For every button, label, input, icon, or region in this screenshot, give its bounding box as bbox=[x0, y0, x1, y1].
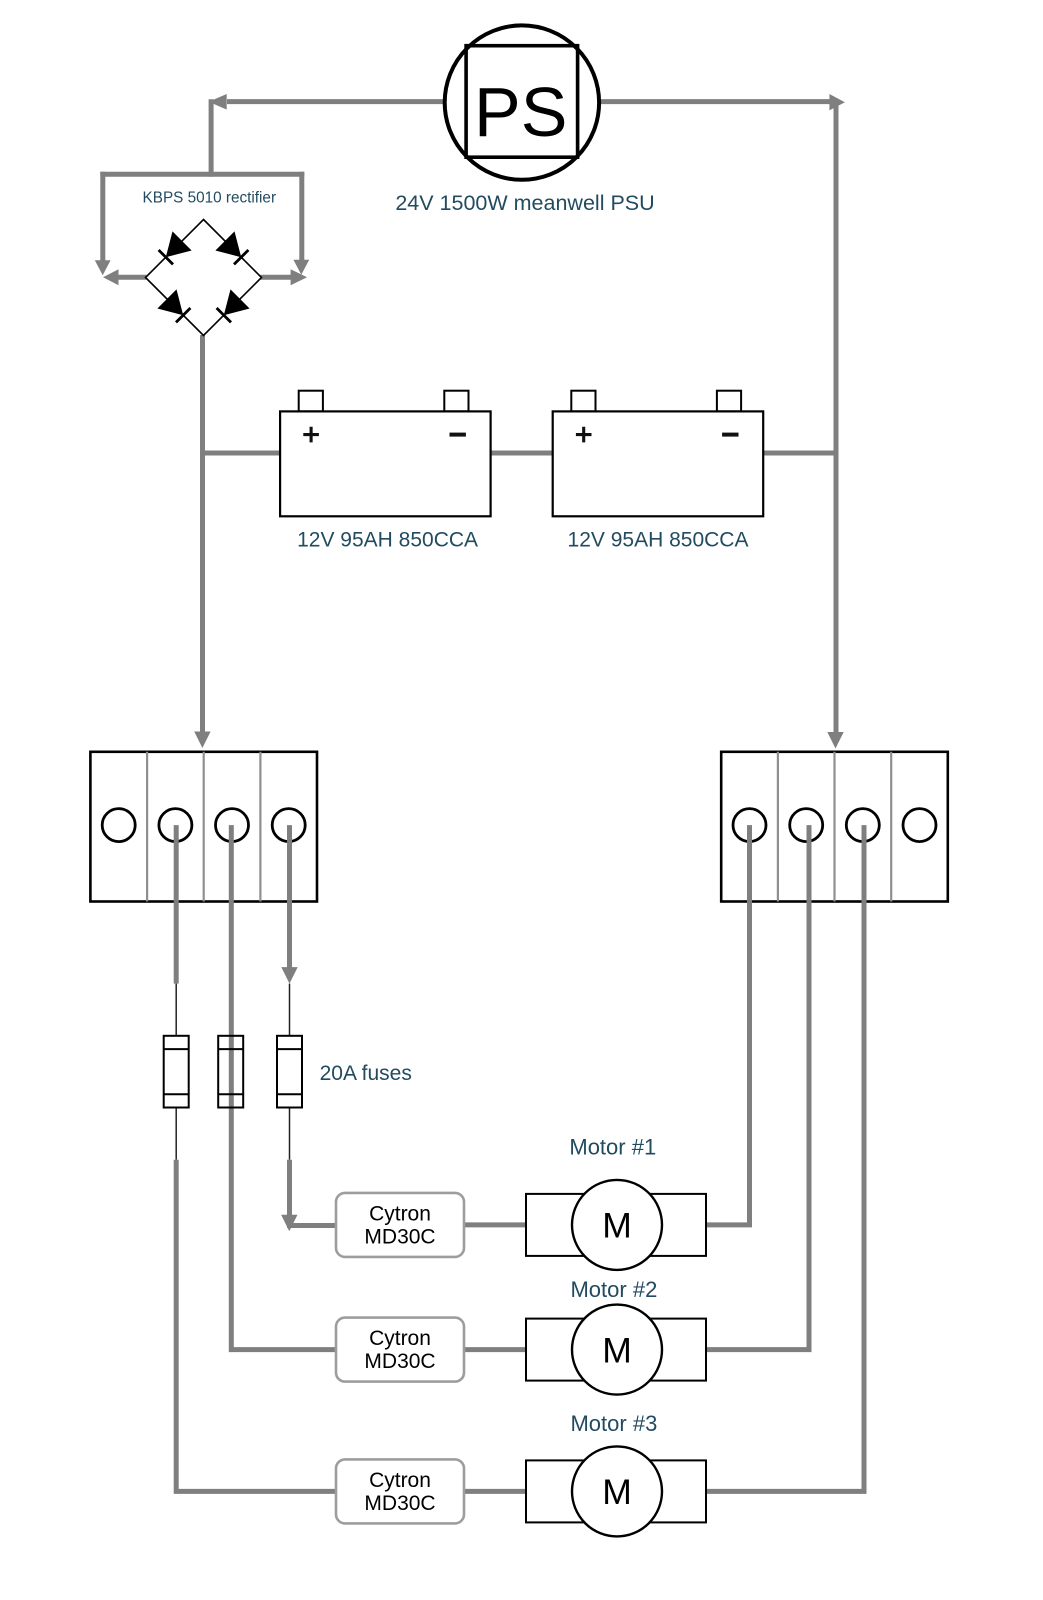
terminal block TB2 (right) bbox=[721, 752, 948, 902]
svg-text:M: M bbox=[602, 1330, 632, 1370]
motor M3 bbox=[526, 1446, 706, 1536]
arrowhead down at bracket right bbox=[293, 260, 309, 275]
motor driver U2 (Cytron MD30C) bbox=[336, 1318, 464, 1382]
wire battery B2 to right vertical bbox=[763, 451, 836, 456]
fuse F2 (20A) bbox=[218, 1036, 243, 1108]
wire battery B1 to B2 bbox=[491, 451, 553, 456]
svg-text:12V 95AH 850CCA: 12V 95AH 850CCA bbox=[297, 529, 478, 552]
svg-text:PS: PS bbox=[474, 73, 567, 151]
svg-text:MD30C: MD30C bbox=[364, 1225, 435, 1248]
wire bracket right drop bbox=[299, 172, 304, 262]
wire corner down to rectifier bracket bbox=[209, 99, 214, 176]
svg-text:MD30C: MD30C bbox=[364, 1350, 435, 1373]
diode D4 (bottom-right) bbox=[217, 289, 250, 322]
motor driver U3 (Cytron MD30C) bbox=[336, 1459, 464, 1523]
wire PS left to corner bbox=[227, 99, 445, 104]
wire Cytron 1 to Motor 1 bbox=[464, 1222, 526, 1227]
motor M2 bbox=[526, 1305, 706, 1395]
arrowhead down into left terminal block bbox=[194, 732, 210, 749]
wire right vertical PSU to right terminal block bbox=[834, 99, 839, 733]
svg-text:Cytron: Cytron bbox=[369, 1202, 431, 1225]
wire Cytron 3 to Motor 3 bbox=[464, 1489, 526, 1494]
wire TB1 terminal 2 down to fuse F1 bbox=[174, 825, 179, 984]
wire rectifier AC right stub bbox=[261, 275, 292, 280]
svg-text:M: M bbox=[602, 1472, 632, 1512]
arrowhead down at fuse F3 bbox=[281, 967, 297, 984]
wire bracket left drop bbox=[100, 172, 105, 262]
svg-text:Motor #3: Motor #3 bbox=[570, 1411, 657, 1436]
arrowhead right AC bbox=[291, 269, 308, 285]
motor M1 bbox=[526, 1180, 706, 1270]
bridge rectifier KBPS 5010 diamond bbox=[146, 220, 262, 336]
power supply PS (24V 1500W) bbox=[445, 25, 599, 179]
svg-text:Cytron: Cytron bbox=[369, 1327, 431, 1350]
wire Motor 1 to right riser bbox=[706, 825, 750, 1225]
fuse F1 (20A) bbox=[164, 984, 189, 1160]
arrowhead down into right terminal block bbox=[827, 732, 843, 749]
wire rectifier bracket top bar bbox=[100, 172, 304, 177]
terminal block TB1 (left) bbox=[90, 752, 317, 902]
wire PS right to corner bbox=[600, 99, 830, 104]
arrowhead down at Motor 1 row corner bbox=[281, 1215, 297, 1232]
svg-text:20A fuses: 20A fuses bbox=[320, 1062, 412, 1085]
svg-text:Cytron: Cytron bbox=[369, 1469, 431, 1492]
diode D3 (bottom-left) bbox=[157, 289, 190, 322]
wire rectifier AC left stub bbox=[118, 275, 147, 280]
svg-text:MD30C: MD30C bbox=[364, 1492, 435, 1515]
svg-text:KBPS 5010 rectifier: KBPS 5010 rectifier bbox=[143, 190, 277, 207]
arrowhead left at corner bbox=[209, 94, 227, 110]
svg-text:M: M bbox=[602, 1206, 632, 1246]
wire fuse F1 down to Motor 3 row corner bbox=[176, 1160, 336, 1492]
wire rectifier DC down to left terminal block bbox=[200, 335, 205, 733]
arrowhead right at corner bbox=[829, 94, 845, 110]
fuse F3 (20A) bbox=[277, 984, 302, 1160]
wire fuse F3 down to Motor 1 row bbox=[287, 1160, 292, 1216]
wire TB1 terminal 3 down through fuse F2 to Motor 2 row bbox=[231, 825, 336, 1350]
battery B1 (12V 95AH 850CCA) bbox=[280, 391, 491, 517]
wire corner to Cytron 1 bbox=[287, 1223, 336, 1228]
svg-text:12V 95AH 850CCA: 12V 95AH 850CCA bbox=[568, 529, 749, 552]
wire left vertical to battery B1 bbox=[203, 451, 281, 456]
svg-text:Motor #1: Motor #1 bbox=[569, 1134, 656, 1159]
arrowhead down at bracket left bbox=[95, 260, 111, 275]
motor driver U1 (Cytron MD30C) bbox=[336, 1193, 464, 1257]
diode D2 (top-right) bbox=[215, 231, 248, 264]
wire Cytron 2 to Motor 2 bbox=[464, 1347, 526, 1352]
battery B2 (12V 95AH 850CCA) bbox=[553, 391, 764, 517]
svg-text:24V 1500W meanwell PSU: 24V 1500W meanwell PSU bbox=[395, 191, 654, 215]
wire TB1 terminal 4 down to fuse F3 bbox=[287, 825, 292, 969]
diode D1 (top-left) bbox=[159, 231, 192, 264]
arrowhead left AC bbox=[103, 269, 119, 285]
svg-text:Motor #2: Motor #2 bbox=[570, 1277, 657, 1302]
wire Motor 2 to right riser bbox=[706, 825, 809, 1350]
wire Motor 3 to right riser bbox=[706, 825, 864, 1491]
